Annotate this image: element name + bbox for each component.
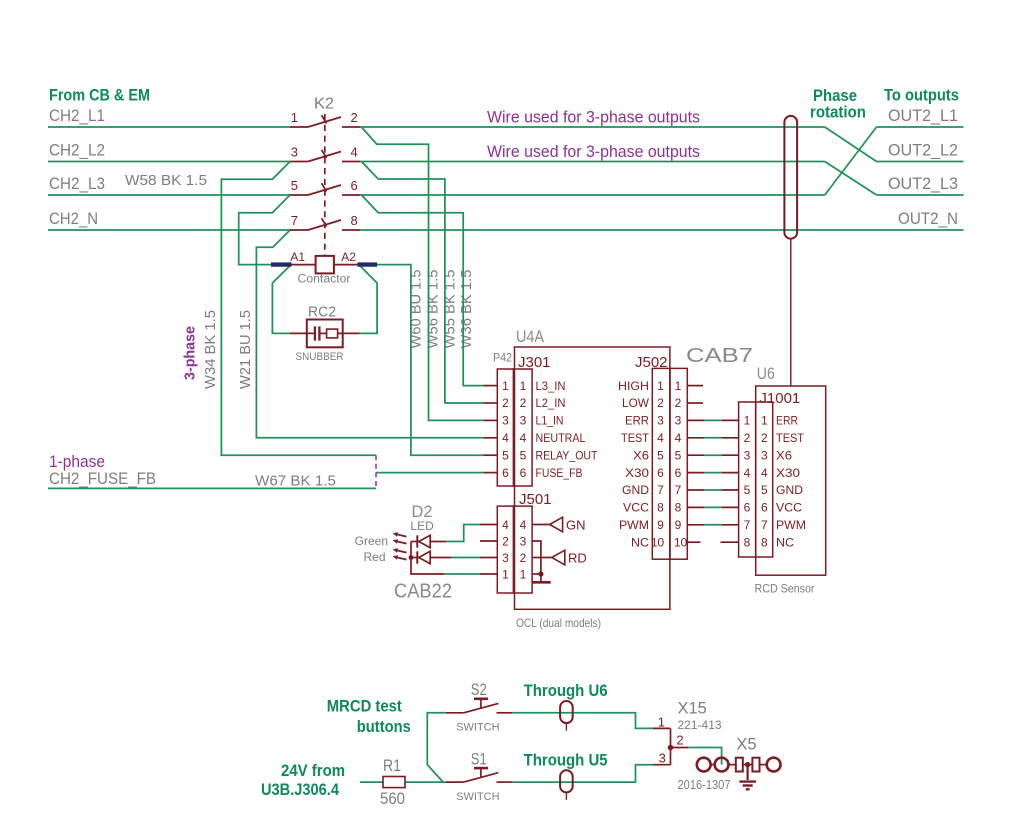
svg-text:6: 6 [744,501,751,515]
svg-text:8: 8 [675,501,682,515]
svg-text:OUT2_L1: OUT2_L1 [888,106,958,125]
svg-text:S2: S2 [471,681,487,699]
sensor loop tail (S1) [565,792,567,800]
svg-text:6: 6 [761,501,768,515]
svg-text:S1: S1 [471,750,487,768]
svg-text:5: 5 [291,178,298,193]
svg-text:6: 6 [520,466,527,480]
svg-text:7: 7 [657,483,664,497]
svg-text:MRCD test: MRCD test [327,697,402,716]
wire 24V to R1 [360,781,383,783]
svg-text:HIGH: HIGH [618,379,649,393]
svg-text:GN: GN [566,518,586,533]
wire R1 to switches junction [405,781,446,783]
svg-text:X15: X15 [678,700,707,718]
wire CH2_L2 left segment [48,161,290,163]
svg-text:K2: K2 [314,96,334,113]
svg-text:W67 BK 1.5: W67 BK 1.5 [255,473,336,490]
contactor coil red leads [292,264,358,266]
svg-text:3-phase: 3-phase [182,326,199,380]
svg-text:2: 2 [744,431,751,445]
1-phase dashed net tie [375,455,377,488]
svg-text:ERR: ERR [625,414,649,428]
svg-text:6: 6 [675,466,682,480]
svg-text:5: 5 [675,448,682,462]
svg-text:3: 3 [520,414,527,428]
wire snubber left branch [272,265,290,333]
connector J502 boxes [652,368,687,559]
J301 pin numbers right column [520,379,527,480]
svg-text:10: 10 [674,535,688,549]
svg-text:7: 7 [291,213,298,228]
svg-text:3: 3 [657,414,664,428]
wire CH2_FUSE_FB [48,487,376,489]
wire branch up to S2 [427,713,446,782]
svg-text:5: 5 [502,448,509,462]
svg-text:A2: A2 [341,250,356,264]
wire CAB22 green LED segment [446,525,480,542]
J502 signal names [618,379,650,550]
svg-text:LOW: LOW [622,396,650,410]
LED D2 green emission arrows [393,532,407,543]
svg-text:CH2_L3: CH2_L3 [49,174,105,193]
svg-text:To outputs: To outputs [884,86,959,105]
wire OUT2_L3 [877,194,964,196]
svg-text:X30: X30 [776,466,800,480]
switch S2 button cap [474,697,488,700]
svg-text:2: 2 [502,534,509,548]
svg-text:5: 5 [761,483,768,497]
svg-text:1: 1 [520,379,527,393]
wire S1 to X15 pin3 [512,765,653,782]
J502 pin numbers right column [674,379,688,550]
svg-text:9: 9 [675,518,682,532]
indicator RD triangle [552,550,565,565]
svg-text:VCC: VCC [776,501,802,515]
LED D2 red element [411,551,452,563]
svg-text:3: 3 [291,145,298,160]
svg-text:3: 3 [761,448,768,462]
contactor K2 mechanical link (dashed) [324,114,326,256]
svg-text:6: 6 [502,466,509,480]
J1001 pin numbers right column [761,414,768,550]
svg-text:NEUTRAL: NEUTRAL [536,431,586,445]
wire CAB22 red LED segment [452,557,480,559]
svg-text:CH2_L1: CH2_L1 [49,106,105,125]
LED cathode junction dot [409,555,414,560]
snubber RC2 outline box [307,320,343,348]
svg-text:RCD Sensor: RCD Sensor [755,582,815,596]
wire L2 branch to J301 pin2 (W55) [362,162,484,404]
svg-text:4: 4 [502,431,509,445]
wire CH2_N left segment [48,229,290,231]
svg-text:4: 4 [675,431,682,445]
svg-text:ERR: ERR [776,414,798,428]
svg-text:2: 2 [502,396,509,410]
J501 ground node dot [538,571,543,576]
sensor loop on S2 wire (through U6) [560,701,573,723]
svg-text:SWITCH: SWITCH [456,791,499,803]
svg-text:5: 5 [744,483,751,497]
svg-text:8: 8 [744,535,751,549]
svg-text:2016-1307: 2016-1307 [678,778,731,792]
svg-text:W56 BK 1.5: W56 BK 1.5 [425,270,442,349]
svg-text:Wire used for 3-phase outputs: Wire used for 3-phase outputs [487,142,700,161]
J501 internal wire to GN [532,524,550,526]
J501 stub pin2 unconnected [480,540,497,542]
wire OUT2_L2 [877,161,964,163]
contactor K2 coil box [316,256,334,274]
wire mark A1 (blue) [271,262,292,266]
K2 contact 3-4 [290,150,360,162]
svg-text:L3_IN: L3_IN [536,379,566,393]
svg-text:RC2: RC2 [308,304,336,321]
svg-text:1: 1 [761,414,768,428]
svg-text:24V from: 24V from [281,761,345,780]
svg-text:4: 4 [351,145,358,160]
LED cathode common wire [411,542,444,575]
wire crossover L2 to OUT2_L3 [825,162,877,196]
svg-text:CAB22: CAB22 [394,581,452,603]
svg-text:5: 5 [657,448,664,462]
wire CH2_L1 right segment to phase pill [360,126,825,128]
svg-text:2: 2 [520,551,527,565]
svg-text:4: 4 [657,431,664,445]
svg-text:FUSE_FB: FUSE_FB [536,466,583,480]
connector J501 boxes [497,506,532,593]
svg-text:1: 1 [657,379,664,393]
svg-text:GND: GND [776,483,803,497]
svg-text:4: 4 [744,466,751,480]
connector J301 boxes [497,369,532,486]
J501 internal wire to RD [532,557,552,559]
connector J301 pin stubs [483,386,497,473]
J501 internal ground wiring [532,541,541,581]
cable CAB7 conductor green segments [704,420,722,524]
svg-text:SNUBBER: SNUBBER [296,351,344,363]
X5 junction dot [745,762,750,767]
wire CH2_L3 right segment to phase pill [360,194,825,196]
wire L3 branch to J301 pin1 (W36) [362,195,484,386]
svg-text:10: 10 [651,535,665,549]
wire CH2_L1 left segment [48,126,290,128]
connector X15 pin stubs [653,728,688,764]
svg-text:W36 BK 1.5: W36 BK 1.5 [458,270,475,349]
svg-text:W34 BK 1.5: W34 BK 1.5 [202,310,219,389]
svg-text:SWITCH: SWITCH [456,722,499,734]
connector J1001 boxes [739,402,773,557]
svg-text:8: 8 [761,535,768,549]
svg-text:Through U5: Through U5 [524,750,608,769]
sensor loop on S1 wire (through U5) [560,770,573,792]
svg-text:7: 7 [761,518,768,532]
J502 pin1 stub HIGH [687,385,703,387]
K2 contact 5-6 [290,183,360,195]
svg-text:U3B.J306.4: U3B.J306.4 [261,780,339,799]
wire CH2_N bypass W21 to J301 pin4 NEUTRAL [256,230,483,438]
wire CH2_L2 right segment to phase pill [360,161,825,163]
J501 pin numbers left column [502,518,509,582]
svg-text:OCL (dual models): OCL (dual models) [516,616,601,630]
wire A2 to J301 pin5 RELAY_OUT (W60) [377,265,483,456]
svg-text:3: 3 [502,551,509,565]
snubber RC2 capacitor plates [315,326,320,340]
K2 contact 7-8 [290,218,360,230]
snubber RC2 resistor box [327,329,338,338]
J502 pin2 stub LOW [687,402,703,404]
svg-text:R1: R1 [383,757,401,775]
svg-text:Through U6: Through U6 [524,681,608,700]
svg-text:3: 3 [502,414,509,428]
svg-text:W21 BU 1.5: W21 BU 1.5 [237,310,254,389]
svg-text:7: 7 [744,518,751,532]
svg-text:8: 8 [657,501,664,515]
svg-text:6: 6 [351,178,358,193]
wire X15 pin2 to X5 [688,748,722,765]
svg-text:1: 1 [675,379,682,393]
J502 pin numbers left column [651,379,665,550]
resistor R1 box [383,777,405,788]
J501 red lead segments left [480,525,497,575]
wire CH2_N right segment through pill to OUT2_N [360,229,964,231]
phase rotation sensor loop (pill) [784,116,797,239]
svg-text:Contactor: Contactor [298,274,351,286]
svg-text:NC: NC [776,535,794,549]
X5 contact rectangles [736,758,760,772]
svg-text:OUT2_N: OUT2_N [898,209,958,228]
J301 pin numbers left column [502,379,509,480]
svg-text:RELAY_OUT: RELAY_OUT [536,448,599,462]
svg-text:1: 1 [658,715,665,730]
X15 junction dot [668,745,674,751]
X5 internal links [711,764,767,766]
svg-text:1: 1 [291,110,298,125]
wire L1 branch to J301 pin3 (W56) [362,127,484,420]
cable CAB7 conductor red segments [687,420,738,524]
svg-text:560: 560 [380,790,405,808]
OCL block U4A outline [515,347,670,609]
svg-text:CH2_N: CH2_N [49,209,98,228]
svg-text:1: 1 [502,379,509,393]
wire crossover L1 to OUT2_L2 [825,127,877,162]
switch S1 [446,769,512,782]
svg-text:OUT2_L2: OUT2_L2 [888,140,958,159]
J1001 pin numbers left column [744,414,751,550]
svg-text:NC: NC [631,535,649,549]
svg-text:3: 3 [520,534,527,548]
svg-text:8: 8 [351,213,358,228]
K2 contact 1-2 [290,115,360,127]
svg-text:4: 4 [520,518,527,532]
svg-text:Red: Red [363,550,385,564]
svg-text:2: 2 [676,733,683,748]
svg-text:RD: RD [568,551,587,566]
svg-text:X6: X6 [633,448,649,462]
LED D2 red emission arrows [393,548,407,559]
indicator GN triangle [550,517,563,532]
wire CH2_L3 bypass to contactor coil A1 [239,195,290,265]
svg-text:3: 3 [744,448,751,462]
svg-text:LED: LED [410,519,434,533]
wire CH2_L3 left segment [48,194,290,196]
svg-text:L2_IN: L2_IN [536,396,566,410]
svg-text:2: 2 [761,431,768,445]
svg-text:2: 2 [657,396,664,410]
svg-text:U6: U6 [757,365,775,383]
RCD sensor block U6 outline [756,386,826,575]
svg-text:X30: X30 [625,466,649,480]
svg-text:U4A: U4A [516,328,544,346]
svg-text:GND: GND [622,483,649,497]
wire OUT2_L1 [877,126,964,128]
wire S2 to X15 pin1 [512,713,653,729]
J501 ground bar [532,581,551,584]
wire pill to U6 [790,239,792,386]
svg-text:5: 5 [520,448,527,462]
wire snubber right branch [360,265,378,333]
svg-text:2: 2 [520,396,527,410]
svg-text:Green: Green [355,534,388,548]
svg-text:L1_IN: L1_IN [536,414,564,428]
wire mark A2 (blue) [357,262,377,266]
wire CAB22 common return segment [444,573,480,575]
test jumper X5 socket circles [697,758,781,772]
earth ground symbol [739,765,756,790]
svg-text:A1: A1 [290,250,305,264]
svg-text:6: 6 [657,466,664,480]
switch S1 button cap [474,767,488,770]
svg-text:1: 1 [744,414,751,428]
wire crossover L3 to OUT2_L1 [825,127,877,195]
svg-text:CH2_FUSE_FB: CH2_FUSE_FB [49,469,156,488]
svg-text:1: 1 [520,567,527,581]
svg-text:3: 3 [675,414,682,428]
svg-text:OUT2_L3: OUT2_L3 [888,174,958,193]
sensor loop tail (S2) [565,723,567,731]
svg-text:X5: X5 [736,736,756,754]
svg-text:J1001: J1001 [759,390,800,407]
svg-text:W58 BK 1.5: W58 BK 1.5 [125,172,207,189]
wire CH2_L2 bypass W34 to 1-phase tie [221,162,376,456]
svg-text:221-413: 221-413 [678,718,722,732]
svg-text:9: 9 [657,518,664,532]
svg-text:CAB7: CAB7 [686,345,753,367]
svg-text:PWM: PWM [619,518,649,532]
LED D2 green element [411,535,446,547]
svg-text:4: 4 [761,466,768,480]
wire 1-phase tie to J301 pin6 FUSE_FB (W67) [376,472,483,474]
svg-text:P42: P42 [493,351,512,365]
svg-text:TEST: TEST [621,431,650,445]
svg-text:rotation: rotation [810,103,866,122]
svg-text:4: 4 [520,431,527,445]
svg-text:From CB & EM: From CB & EM [49,86,150,105]
svg-text:TEST: TEST [776,431,805,445]
svg-text:CH2_L2: CH2_L2 [49,140,105,159]
svg-text:2: 2 [351,110,358,125]
switch S2 [446,700,512,713]
snubber RC2 red leads [290,332,360,334]
svg-text:7: 7 [675,483,682,497]
svg-text:PWM: PWM [776,518,806,532]
svg-text:Wire used for 3-phase outputs: Wire used for 3-phase outputs [487,108,700,127]
svg-text:3: 3 [659,751,666,766]
J301 signal names [536,379,599,480]
svg-text:VCC: VCC [623,501,649,515]
svg-text:2: 2 [675,396,682,410]
NC row open stubs [687,541,738,543]
svg-text:buttons: buttons [357,717,411,736]
svg-text:4: 4 [502,518,509,532]
svg-text:X6: X6 [776,448,792,462]
svg-text:1: 1 [502,567,509,581]
J1001 signal names [776,414,806,550]
J501 pin numbers right column [520,518,527,582]
